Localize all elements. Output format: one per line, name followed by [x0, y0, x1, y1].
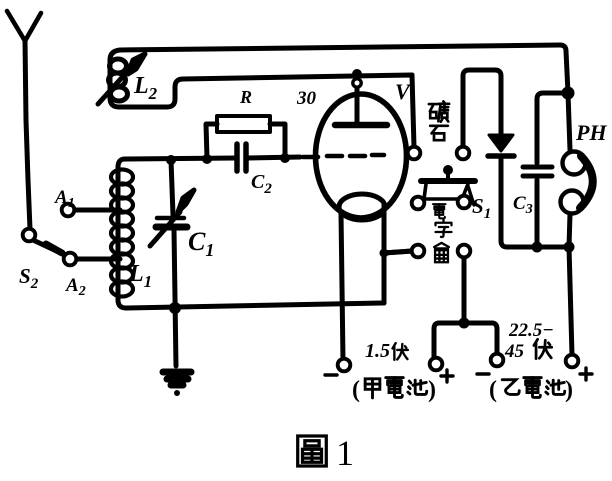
svg-text:): )	[428, 377, 436, 403]
svg-text:22.5−: 22.5−	[508, 320, 554, 341]
svg-text:(: (	[489, 377, 497, 403]
svg-text:1.5: 1.5	[365, 340, 390, 362]
svg-text:1: 1	[336, 433, 354, 473]
svg-text:30: 30	[296, 88, 317, 109]
svg-text:R: R	[239, 87, 252, 107]
svg-text:PH: PH	[575, 120, 607, 145]
svg-text:(: (	[352, 377, 360, 403]
svg-text:45: 45	[504, 341, 525, 362]
svg-text:): )	[565, 377, 573, 403]
svg-text:V: V	[395, 79, 412, 104]
